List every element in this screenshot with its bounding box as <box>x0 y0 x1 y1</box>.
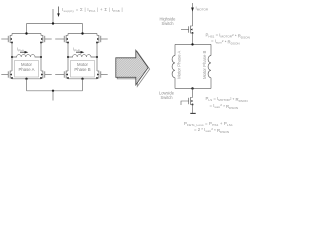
bridge B top rail wire <box>68 33 97 35</box>
transistor A high-side left <box>1 35 13 43</box>
bridge B left leg wire <box>67 34 69 79</box>
node bridge A top center <box>25 32 27 34</box>
supply current arrow <box>57 7 60 18</box>
bridge A left leg wire <box>11 34 13 79</box>
bridge A right leg wire <box>40 34 42 79</box>
bottom return wire bridge B drop <box>82 79 84 91</box>
svg-text:PFETs_Loss = PHS1 + PLS1: PFETs_Loss = PHS1 + PLS1 <box>184 121 233 127</box>
transistor B high-side right <box>96 35 108 43</box>
svg-text:Phase B: Phase B <box>74 67 90 72</box>
arrow phase B current <box>76 51 84 54</box>
node supply junction <box>52 22 54 24</box>
node bridge B bottom center <box>81 78 83 80</box>
transistor B high-side left <box>55 35 69 43</box>
transistor A low-side left <box>1 71 13 79</box>
svg-text:Switch: Switch <box>160 95 173 100</box>
inductor right phase A <box>172 56 175 78</box>
wire rail to bridge A <box>26 24 28 34</box>
inductor phase A coil <box>12 55 41 57</box>
transistor highside switch <box>181 26 193 34</box>
transistor B low-side left <box>55 71 69 79</box>
transistor A low-side right <box>40 71 52 79</box>
node bottom return junction <box>52 90 54 92</box>
wire rail to bridge B <box>82 24 84 34</box>
wire highside to coils <box>192 33 194 44</box>
bridge B right leg wire <box>96 34 98 79</box>
box motor phase B <box>71 61 95 78</box>
node coil B left <box>67 56 69 58</box>
coil branch A wire top <box>174 44 176 55</box>
ground <box>190 112 195 114</box>
node bridge B top center <box>81 32 83 34</box>
block arrow shadow <box>117 52 149 87</box>
svg-text:= Isum2 * RDSON: = Isum2 * RDSON <box>211 39 240 46</box>
bottom return wire bridge A drop <box>26 79 28 91</box>
bridge B bottom rail wire <box>68 78 97 80</box>
block arrow <box>116 50 148 85</box>
wire coils to lowside <box>192 89 194 98</box>
node coil B right <box>96 56 98 58</box>
transistor A high-side right <box>40 35 52 43</box>
coil top rail wire <box>175 43 211 45</box>
bridge A bottom rail wire <box>12 78 41 80</box>
bottom return stub wire <box>52 91 54 101</box>
node coil A left <box>11 56 13 58</box>
svg-text:= Isum2 * RDSON: = Isum2 * RDSON <box>210 103 239 110</box>
transistor lowside switch <box>181 97 193 105</box>
node coil bottom center <box>191 87 193 89</box>
svg-text:IPhA: IPhA <box>17 47 25 53</box>
supply stub wire <box>52 9 54 24</box>
node coil A right <box>40 56 42 58</box>
bridge A top rail wire <box>12 33 41 35</box>
svg-text:Switch: Switch <box>161 21 174 26</box>
wire lowside to ground <box>192 105 194 114</box>
coil branch B wire top <box>210 44 212 55</box>
transistor B low-side right <box>96 71 108 79</box>
svg-text:Motor Phase A: Motor Phase A <box>176 51 181 79</box>
coil bottom rail wire <box>175 88 211 90</box>
arrow motor current <box>191 8 194 12</box>
top supply rail wire <box>27 23 83 25</box>
node bridge A bottom center <box>25 78 27 80</box>
coil branch A wire bottom <box>174 78 176 89</box>
inductor phase B coil <box>68 55 97 57</box>
inductor right phase B <box>208 56 211 78</box>
box motor phase A <box>15 61 39 78</box>
svg-text:Phase A: Phase A <box>18 67 34 72</box>
coil branch B wire bottom <box>210 78 212 89</box>
svg-text:Isupply = Σ | IPhA | + Σ | IPh: Isupply = Σ | IPhA | + Σ | IPhB | <box>62 7 123 13</box>
svg-text:IMOTOR: IMOTOR <box>196 6 209 12</box>
arrow phase A current <box>20 51 28 54</box>
node coil top center <box>191 43 193 45</box>
svg-text:IPhB: IPhB <box>73 47 80 53</box>
bottom return rail wire <box>27 90 83 92</box>
svg-text:Motor Phase B: Motor Phase B <box>202 50 207 79</box>
motor supply wire top <box>192 3 194 26</box>
svg-text:= 2 * Isum2 * RDSON: = 2 * Isum2 * RDSON <box>194 127 229 134</box>
